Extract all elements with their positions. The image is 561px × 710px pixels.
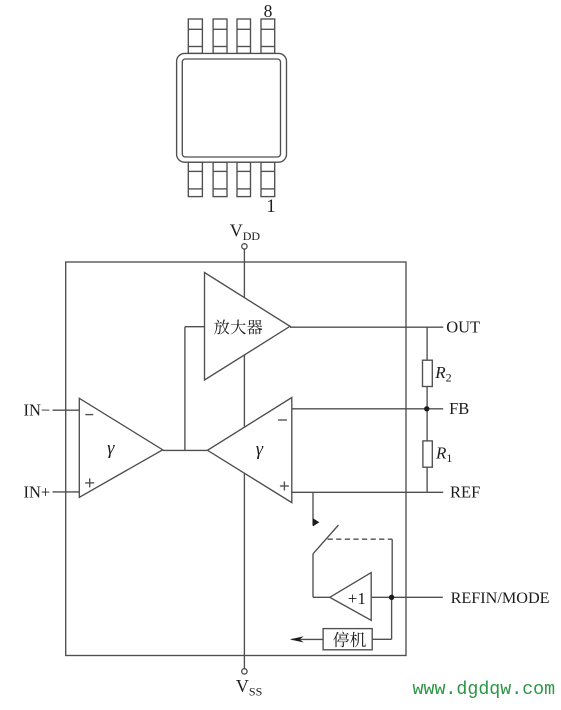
VDD terminal circle	[242, 244, 247, 249]
shutdown block 停机	[323, 629, 372, 650]
svg-text:FB: FB	[449, 399, 469, 418]
IC pin 4 (bottom lead)	[261, 162, 275, 196]
IC pin 7 (top lead)	[213, 19, 227, 53]
main block boundary	[66, 262, 406, 656]
IC pin 3 (bottom lead)	[237, 162, 251, 196]
resistor R1	[423, 441, 432, 467]
svg-text:γ: γ	[107, 439, 115, 459]
wire: amplifier input horizontal	[185, 326, 205, 328]
A1 plus pin mark	[85, 478, 94, 487]
shutdown output arrowhead	[290, 636, 304, 642]
buffer U3 (+1)	[330, 573, 371, 621]
svg-text:IN−: IN−	[24, 401, 51, 420]
wire: A2 inverting input to FB	[292, 408, 443, 410]
resistor R2	[423, 360, 433, 386]
wire: OUT to R2 top	[426, 327, 428, 360]
A2 plus pin mark	[280, 482, 289, 491]
IC pin 1 (bottom lead)	[188, 162, 202, 196]
svg-text:REFIN/MODE: REFIN/MODE	[451, 589, 550, 607]
wire: REF line down to switch contact	[312, 492, 314, 525]
svg-text:IN+: IN+	[24, 482, 51, 501]
wire: switch control down to REFIN node	[391, 539, 393, 597]
VSS terminal circle	[242, 669, 247, 674]
wire: A2 non-inverting input to REF	[292, 491, 443, 493]
IC pin 6 (top lead)	[237, 19, 251, 53]
wire: REFIN/MODE input to buffer	[371, 596, 443, 598]
wire: VDD to VSS supply rail	[243, 249, 245, 668]
IC package outline U1	[177, 53, 287, 162]
gamma buffer A2 (right)	[208, 398, 292, 503]
node REFIN junction dot	[389, 595, 394, 600]
svg-text:1: 1	[266, 197, 275, 217]
wire: R1 bottom to REF line	[426, 467, 428, 492]
wire: buffer output horizontal	[313, 596, 330, 598]
A2 minus pin mark	[278, 419, 287, 421]
svg-text:8: 8	[264, 1, 273, 21]
wire: FB node to R1 top	[426, 409, 428, 441]
label 放大器 (amplifier)	[214, 320, 262, 335]
wire: shutdown output arrow line	[292, 638, 324, 640]
wire: R2 bottom to FB node	[426, 387, 428, 409]
svg-text:γ: γ	[256, 440, 264, 460]
IC pin 8 (top lead)	[188, 19, 202, 53]
wire: into shutdown block	[372, 638, 391, 640]
node FB junction dot	[424, 406, 429, 411]
switch S1 contact arrowhead	[313, 518, 319, 526]
label 停机 (shutdown)	[333, 632, 366, 648]
gamma buffer A1 (left)	[79, 398, 162, 497]
switch S1 control (dashed)	[328, 538, 393, 540]
svg-text:+1: +1	[348, 589, 366, 608]
wire: amplifier output to OUT	[290, 326, 443, 328]
wire: IN- input	[53, 409, 80, 411]
wire: feedback vertical to amplifier input	[184, 327, 186, 451]
IC pin 5 (top lead)	[261, 19, 275, 53]
A1 minus pin mark	[85, 414, 93, 416]
svg-text:www.dgdqw.com: www.dgdqw.com	[413, 680, 556, 700]
wire: REFIN node down to shutdown block	[391, 597, 393, 639]
svg-text:OUT: OUT	[446, 318, 480, 337]
wire: IN+ input	[53, 491, 80, 493]
IC package inner body	[182, 59, 280, 157]
svg-text:REF: REF	[450, 483, 480, 502]
op-amp U2 (amplifier 放大器)	[205, 273, 291, 381]
switch S1 lever	[313, 525, 339, 554]
wire: junction between gamma buffer outputs	[163, 449, 208, 451]
wire: switch lever to buffer output	[312, 554, 314, 598]
IC pin 2 (bottom lead)	[213, 162, 227, 196]
